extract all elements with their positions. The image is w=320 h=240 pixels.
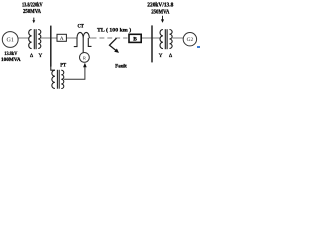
svg-text:B: B [133,37,137,43]
svg-text:13.8/220kV: 13.8/220kV [22,2,43,8]
svg-text:G2: G2 [187,37,194,43]
svg-text:Y: Y [159,53,163,59]
svg-text:A: A [60,36,64,42]
svg-text:250MVA: 250MVA [23,9,42,15]
svg-text:100MVA: 100MVA [1,57,21,63]
svg-text:PT: PT [60,64,67,69]
svg-text:CT: CT [77,23,84,29]
svg-text:TL ( 100 km ): TL ( 100 km ) [97,26,131,33]
svg-text:Y: Y [39,53,43,59]
svg-text:250MVA: 250MVA [151,9,170,15]
svg-text:Fault: Fault [115,65,127,70]
svg-text:G1: G1 [7,38,14,44]
svg-text:220kV/13.8: 220kV/13.8 [147,2,173,8]
